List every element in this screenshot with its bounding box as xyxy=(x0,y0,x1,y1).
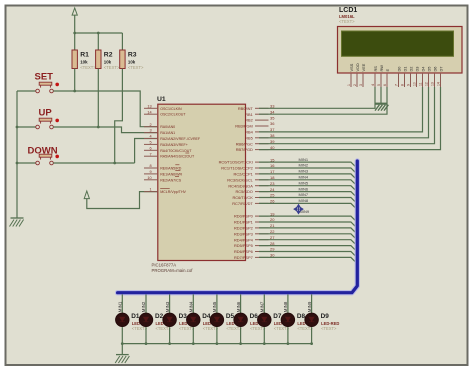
ground symbol (bottom-left) xyxy=(11,217,24,219)
svg-text:2: 2 xyxy=(353,84,357,86)
svg-text:U1: U1 xyxy=(157,96,166,103)
svg-text:13: 13 xyxy=(431,82,435,86)
wire R3 top lead xyxy=(121,33,123,50)
svg-text:2: 2 xyxy=(149,123,151,127)
U1 left pin 9 RE1/AN6/WR xyxy=(144,173,158,175)
overline on RE2 CS xyxy=(175,176,179,178)
U1 right pin 27 RD4/PSP4 xyxy=(255,239,269,241)
U1 left pin 8 RE0/AN5/RD xyxy=(144,167,158,169)
button DOWN left terminal xyxy=(36,161,40,165)
svg-text:12: 12 xyxy=(425,82,429,86)
svg-text:13: 13 xyxy=(147,104,151,108)
wire ground rail (left) xyxy=(16,91,18,218)
wire bus to LED D4 anode xyxy=(192,294,194,313)
svg-text:VDD: VDD xyxy=(355,63,360,71)
svg-text:D4: D4 xyxy=(420,66,425,72)
junction D2 / ground rail xyxy=(145,342,148,345)
U1 left pin 14 OSC2/CLKOUT xyxy=(144,113,158,115)
svg-text:RD4/PSP4: RD4/PSP4 xyxy=(234,237,254,242)
wire LED D9 cathode to ground rail xyxy=(311,327,313,344)
svg-text:MIN6: MIN6 xyxy=(299,186,309,191)
power symbol +V (MCLR) xyxy=(84,191,89,199)
svg-text:14: 14 xyxy=(437,82,441,86)
svg-text:D4: D4 xyxy=(202,313,211,320)
junction D7 / ground rail xyxy=(263,342,266,345)
U1 left pin 13 OSC1/CLKIN xyxy=(144,107,158,109)
svg-text:D7: D7 xyxy=(438,67,443,72)
wire bus to LED D3 anode xyxy=(169,294,171,313)
svg-text:RW: RW xyxy=(379,65,384,72)
svg-text:MIN4: MIN4 xyxy=(299,175,309,180)
U1 right pin 25 RC6/TX/CK xyxy=(255,197,269,199)
U1 right pin 20 RD1/PSP1 xyxy=(255,221,269,223)
LED D1 xyxy=(116,313,130,327)
ground symbol (LED rail) xyxy=(116,354,129,356)
svg-text:MIN5: MIN5 xyxy=(212,301,217,312)
LED D8 xyxy=(281,313,295,327)
svg-text:SET: SET xyxy=(35,72,54,83)
svg-text:4: 4 xyxy=(371,84,375,86)
svg-text:RE0/AN5/RD: RE0/AN5/RD xyxy=(160,167,182,171)
wire +V to MCLR pin 1 xyxy=(87,192,158,209)
svg-text:RC4/SDI/SDA: RC4/SDI/SDA xyxy=(228,183,253,188)
svg-text:VEE: VEE xyxy=(361,63,366,71)
svg-text:7: 7 xyxy=(395,84,399,86)
svg-text:RE2/AN7/CS: RE2/AN7/CS xyxy=(160,178,182,182)
wire R2 top lead xyxy=(97,33,99,50)
LED D2 xyxy=(139,313,153,327)
svg-text:RA1/AN1: RA1/AN1 xyxy=(160,131,175,135)
junction D8 / ground rail xyxy=(287,342,290,345)
svg-text:D7: D7 xyxy=(273,313,282,320)
svg-text:MIN5: MIN5 xyxy=(299,180,309,185)
overline on MCLR xyxy=(160,187,170,189)
svg-text:RD5/PSP5: RD5/PSP5 xyxy=(234,243,253,248)
wire RD4 to bus xyxy=(259,240,357,246)
wire R1 bottom lead to SET row xyxy=(74,69,76,92)
svg-text:RD7/PSP7: RD7/PSP7 xyxy=(234,255,253,260)
svg-text:RB2: RB2 xyxy=(245,118,253,123)
wire bus to LED D7 anode xyxy=(263,294,265,313)
svg-text:RB6/PGC: RB6/PGC xyxy=(236,141,253,146)
button SET actuator bar xyxy=(39,82,52,85)
svg-text:RB1: RB1 xyxy=(245,112,253,117)
svg-text:D3: D3 xyxy=(414,67,419,72)
svg-text:RC7/RX/DT: RC7/RX/DT xyxy=(232,201,253,206)
svg-text:RC1/T1OSI/CCP2: RC1/T1OSI/CCP2 xyxy=(221,166,253,171)
wire bus to LED D9 anode xyxy=(311,294,313,313)
svg-text:4: 4 xyxy=(149,135,151,139)
wire bus to LED D6 anode xyxy=(240,294,242,313)
svg-text:MIN3: MIN3 xyxy=(165,301,170,312)
svg-text:D5: D5 xyxy=(426,67,431,72)
U1 left pin 6 RA4/T0CKI/C1OUT xyxy=(144,149,158,151)
wire RB7 to LCD D7 xyxy=(259,87,441,150)
svg-text:D9: D9 xyxy=(321,313,330,320)
U1 right pin 24 RC5/SDO xyxy=(255,191,269,193)
junction top rail / R1 xyxy=(73,32,76,35)
junction D3 / ground rail xyxy=(168,342,171,345)
U1 right pin 16 RC1/T1OSI/CCP2 xyxy=(255,167,269,169)
svg-text:RC0/T1OSO/T1CKI: RC0/T1OSO/T1CKI xyxy=(219,160,253,165)
wire RD3 to bus xyxy=(259,234,357,240)
wire LED D6 cathode to ground rail xyxy=(240,327,242,344)
junction D1 / ground rail xyxy=(121,342,124,345)
wire LED D8 cathode to ground rail xyxy=(287,327,289,344)
svg-text:7: 7 xyxy=(149,152,151,156)
U1 left pin 10 RE2/AN7/CS xyxy=(144,179,158,181)
U1 right pin 17 RC2/CCP1 xyxy=(255,173,269,175)
U1 right pin 29 RD6/PSP6 xyxy=(255,251,269,253)
svg-text:D2: D2 xyxy=(408,67,413,72)
svg-text:D6: D6 xyxy=(432,67,437,72)
junction top rail / R2 xyxy=(97,32,100,35)
wire RC1 (net MIN2) to bus xyxy=(259,168,357,174)
svg-text:MIN7: MIN7 xyxy=(299,192,309,197)
svg-text:36: 36 xyxy=(270,121,275,126)
svg-text:10k: 10k xyxy=(80,60,88,65)
svg-text:RD0/PSP0: RD0/PSP0 xyxy=(234,214,254,219)
svg-text:35: 35 xyxy=(270,115,275,120)
LED D7 xyxy=(258,313,272,327)
svg-text:VSS: VSS xyxy=(349,63,354,71)
wire DOWN row right segment xyxy=(53,162,134,164)
svg-text:MIN2: MIN2 xyxy=(141,301,146,312)
svg-text:PIC16F877A: PIC16F877A xyxy=(152,263,177,268)
svg-text:RB3/PGM: RB3/PGM xyxy=(235,124,253,129)
svg-text:<TEXT>: <TEXT> xyxy=(339,19,355,24)
junction D5 / ground rail xyxy=(216,342,219,345)
U1 left pin 4 RA2/AN2/VREF-/CVREF xyxy=(144,138,158,140)
wire RD1 to bus xyxy=(259,222,357,228)
svg-text:MIN9: MIN9 xyxy=(307,301,312,312)
svg-text:RA4/T0CKI/C1OUT: RA4/T0CKI/C1OUT xyxy=(160,149,192,153)
U1 right pin 15 RC0/T1OSO/T1CKI xyxy=(255,161,269,163)
wire R1 top lead xyxy=(74,33,76,50)
button SET right terminal xyxy=(50,89,54,93)
svg-text:10k: 10k xyxy=(104,60,112,65)
U1 left pin 3 RA1/AN1 xyxy=(144,132,158,134)
svg-text:MIN6: MIN6 xyxy=(236,301,241,312)
power symbol +V (top, above R1) xyxy=(72,8,77,15)
svg-text:6: 6 xyxy=(383,84,387,86)
LED D5 xyxy=(210,313,224,327)
wire RD0 to bus xyxy=(259,216,357,222)
wire bus to LED D1 anode xyxy=(121,294,123,313)
svg-text:14: 14 xyxy=(147,110,151,114)
wire RB6 to LCD D6 xyxy=(259,87,435,144)
wire RC5 (net MIN6) to bus xyxy=(259,192,357,198)
wire RA2 to DOWN row xyxy=(135,139,158,164)
wire SET row to RA0 (down at x140.2) xyxy=(53,91,158,127)
bus (thick blue) from RC/RD pins down and across to LEDs - core xyxy=(118,161,358,293)
junction DOWN row / R3 xyxy=(113,162,116,165)
mouse move cursor icon xyxy=(294,205,303,214)
svg-text:RC2/CCP1: RC2/CCP1 xyxy=(234,172,253,177)
wire bus to LED D2 anode xyxy=(145,294,147,313)
U1 right pin 22 RD3/PSP3 xyxy=(255,233,269,235)
wire R2 bottom lead to UP row (crosses SET row) xyxy=(97,69,99,128)
svg-text:D2: D2 xyxy=(155,313,164,320)
svg-text:D5: D5 xyxy=(226,313,235,320)
button UP actuator bar xyxy=(39,118,52,121)
svg-text:MIN1: MIN1 xyxy=(118,301,123,312)
svg-text:RA2/AN2/VREF-/CVREF: RA2/AN2/VREF-/CVREF xyxy=(160,137,201,141)
junction D4 / ground rail xyxy=(192,342,195,345)
svg-text:8: 8 xyxy=(401,84,405,86)
wire LED D3 cathode to ground rail xyxy=(169,327,171,344)
svg-text:MIN1: MIN1 xyxy=(299,157,309,162)
svg-text:RD2/PSP2: RD2/PSP2 xyxy=(234,226,253,231)
U1 left pin 1 MCLR/Vpp/THV xyxy=(144,191,158,193)
svg-text:3: 3 xyxy=(359,84,363,86)
U1 left pin 5 RA3/AN3/VREF+ xyxy=(144,143,158,145)
junction ground rail / DOWN row xyxy=(16,162,19,165)
button UP left terminal xyxy=(36,125,40,129)
button SET red indicator dot xyxy=(55,83,59,87)
wire LED D7 cathode to ground rail xyxy=(263,327,265,344)
svg-text:11: 11 xyxy=(419,82,423,86)
svg-text:PROGRAM=main.cof: PROGRAM=main.cof xyxy=(152,268,194,273)
svg-text:RA0/AN0: RA0/AN0 xyxy=(160,125,175,129)
svg-text:D1: D1 xyxy=(131,313,140,320)
svg-text:9: 9 xyxy=(407,84,411,86)
svg-text:10: 10 xyxy=(413,82,417,86)
wire bus to LED D8 anode xyxy=(287,294,289,313)
svg-text:RB5: RB5 xyxy=(245,135,253,140)
U1 right pin 34 RB1 xyxy=(255,113,269,115)
svg-text:<TEXT>: <TEXT> xyxy=(104,65,120,70)
bus (thick blue) from RC/RD pins down and across to LEDs - halo xyxy=(118,161,358,293)
svg-text:<TEXT>: <TEXT> xyxy=(321,326,337,331)
svg-text:3: 3 xyxy=(149,129,151,133)
resistor R3 xyxy=(120,50,125,69)
wire RC0 (net MIN1) to bus xyxy=(259,162,357,168)
U1 left pin 2 RA0/AN0 xyxy=(144,126,158,128)
svg-text:D3: D3 xyxy=(179,313,188,320)
wire top rail connecting R1 R2 R3 tops xyxy=(75,32,123,34)
svg-text:5: 5 xyxy=(149,141,151,145)
svg-text:D6: D6 xyxy=(250,313,259,320)
U1 right pin 28 RD5/PSP5 xyxy=(255,245,269,247)
svg-text:D0: D0 xyxy=(396,66,401,72)
wire LED D5 cathode to ground rail xyxy=(216,327,218,344)
wire RC6 (net MIN7) to bus xyxy=(259,198,357,204)
svg-text:RC3/SCK/SCL: RC3/SCK/SCL xyxy=(227,177,253,182)
junction SET row / R1 xyxy=(73,90,76,93)
button DOWN actuator bar xyxy=(39,154,52,157)
svg-text:RS: RS xyxy=(373,66,378,72)
wire LED D1 cathode to ground rail xyxy=(121,327,123,344)
svg-text:RD3/PSP3: RD3/PSP3 xyxy=(234,231,253,236)
ground symbol (LCD RW) xyxy=(375,103,388,105)
wire RB5 to LCD D5 xyxy=(259,87,429,138)
svg-text:MIN8: MIN8 xyxy=(299,198,309,203)
svg-text:1: 1 xyxy=(347,84,351,86)
wire RC3 (net MIN4) to bus xyxy=(259,180,357,186)
U1 right pin 19 RD0/PSP0 xyxy=(255,215,269,217)
overline on RA5 SS xyxy=(185,152,189,154)
svg-text:MCLR/Vpp/THV: MCLR/Vpp/THV xyxy=(160,190,186,194)
wire R3 bottom lead with jog to DOWN row xyxy=(115,69,123,164)
svg-text:RB4: RB4 xyxy=(245,130,253,135)
LED D3 xyxy=(163,313,177,327)
U1 right pin 36 RB3/PGM xyxy=(255,125,269,127)
U1 right pin 38 RB5 xyxy=(255,137,269,139)
junction ground rail / UP row xyxy=(16,126,19,129)
svg-text:8: 8 xyxy=(149,164,151,168)
svg-text:10: 10 xyxy=(147,176,151,180)
svg-text:MIN3: MIN3 xyxy=(299,169,309,174)
wire LED D4 cathode to ground rail xyxy=(192,327,194,344)
resistor R1 xyxy=(72,50,77,69)
svg-text:R2: R2 xyxy=(104,52,113,59)
wire RD5 to bus xyxy=(259,246,357,252)
wire bus to LED D5 anode xyxy=(216,294,218,313)
svg-text:RD1/PSP1: RD1/PSP1 xyxy=(234,220,253,225)
svg-text:MIN2: MIN2 xyxy=(299,163,309,168)
svg-text:RB7/PGD: RB7/PGD xyxy=(236,147,253,152)
svg-text:MIN4: MIN4 xyxy=(189,301,194,312)
wire +V stem to top rail xyxy=(74,15,76,33)
LCD1 display screen xyxy=(342,31,454,56)
svg-text:E: E xyxy=(385,69,390,72)
junction UP row / R2 xyxy=(97,126,100,129)
svg-text:<TEXT>: <TEXT> xyxy=(80,65,96,70)
resistor R2 xyxy=(96,50,101,69)
button DOWN right terminal xyxy=(50,161,54,165)
svg-text:RA3/AN3/VREF+: RA3/AN3/VREF+ xyxy=(160,143,188,147)
wire SET row left segment (to ground rail) xyxy=(17,90,36,92)
wire RC7 (net MIN8) to bus xyxy=(259,203,357,209)
U1 right pin 18 RC3/SCK/SCL xyxy=(255,179,269,181)
wire LED D2 cathode to ground rail xyxy=(145,327,147,344)
U1 right pin 26 RC7/RX/DT xyxy=(255,202,269,204)
wire RB4 to LCD D4 xyxy=(259,87,423,132)
wire RD2 to bus xyxy=(259,228,357,234)
op-amp U1 body (PIC16F877A microcontroller) xyxy=(158,104,246,260)
button UP right terminal xyxy=(50,125,54,129)
junction D9 / ground rail xyxy=(310,342,313,345)
svg-text:RE1/AN6/WR: RE1/AN6/WR xyxy=(160,172,182,176)
wire RC2 (net MIN3) to bus xyxy=(259,174,357,180)
overline on RE1 WR xyxy=(175,170,180,172)
wire RD7 to bus xyxy=(259,257,357,263)
wire DOWN row left segment xyxy=(17,162,36,164)
svg-text:RB0/INT: RB0/INT xyxy=(238,106,254,111)
svg-text:R1: R1 xyxy=(80,52,89,59)
overline on RE0 RD xyxy=(175,164,179,166)
U1 left pin 7 RA5/AN4/SS/C2OUT xyxy=(144,155,158,157)
LED D6 xyxy=(234,313,248,327)
U1 right pin 33 RB0/INT xyxy=(255,107,269,109)
svg-text:RD6/PSP6: RD6/PSP6 xyxy=(234,249,253,254)
svg-text:D8: D8 xyxy=(297,313,306,320)
U1 right pin 23 RC4/SDI/SDA xyxy=(255,185,269,187)
wire UP row left segment xyxy=(17,126,36,128)
LCD LCD1 body xyxy=(338,27,463,74)
button DOWN red indicator dot xyxy=(55,155,59,159)
wire RD6 to bus xyxy=(259,252,357,258)
svg-text:<TEXT>: <TEXT> xyxy=(128,65,144,70)
button UP red indicator dot xyxy=(55,119,59,123)
LED D9 xyxy=(305,313,319,327)
U1 right pin 40 RB7/PGD xyxy=(255,149,269,151)
wire RB1 to LCD E xyxy=(259,87,387,114)
wire UP row to RA1 (jog down at x121.5) xyxy=(53,127,158,133)
U1 right pin 39 RB6/PGC xyxy=(255,143,269,145)
svg-text:10k: 10k xyxy=(128,60,136,65)
svg-text:6: 6 xyxy=(149,146,151,150)
svg-text:OSC2/CLKOUT: OSC2/CLKOUT xyxy=(160,113,186,117)
wire RC4 (net MIN5) to bus xyxy=(259,186,357,192)
U1 right pin 35 RB2 xyxy=(255,119,269,121)
svg-text:5: 5 xyxy=(377,84,381,86)
LED D4 xyxy=(187,313,201,327)
wire ground rail stem xyxy=(121,344,123,355)
svg-text:UP: UP xyxy=(39,108,53,119)
junction D6 / ground rail xyxy=(239,342,242,345)
U1 right pin 21 RD2/PSP2 xyxy=(255,227,269,229)
svg-text:D1: D1 xyxy=(402,67,407,72)
svg-text:RA5/AN4/SS/C2OUT: RA5/AN4/SS/C2OUT xyxy=(160,155,195,159)
wire RB0 to LCD RS xyxy=(259,87,375,108)
wire LCD RW to ground xyxy=(380,87,382,103)
U1 right pin 37 RB4 xyxy=(255,131,269,133)
svg-text:9: 9 xyxy=(149,170,151,174)
button SET left terminal xyxy=(36,89,40,93)
svg-text:OSC1/CLKIN: OSC1/CLKIN xyxy=(160,107,182,111)
svg-text:RC6/TX/CK: RC6/TX/CK xyxy=(232,195,253,200)
svg-text:RC5/SDO: RC5/SDO xyxy=(236,189,253,194)
svg-text:1: 1 xyxy=(149,188,151,192)
svg-text:R3: R3 xyxy=(128,52,137,59)
svg-text:MIN7: MIN7 xyxy=(260,301,265,312)
wire LED ground rail xyxy=(122,343,311,345)
svg-text:MIN8: MIN8 xyxy=(283,301,288,312)
U1 right pin 30 RD7/PSP7 xyxy=(255,256,269,258)
